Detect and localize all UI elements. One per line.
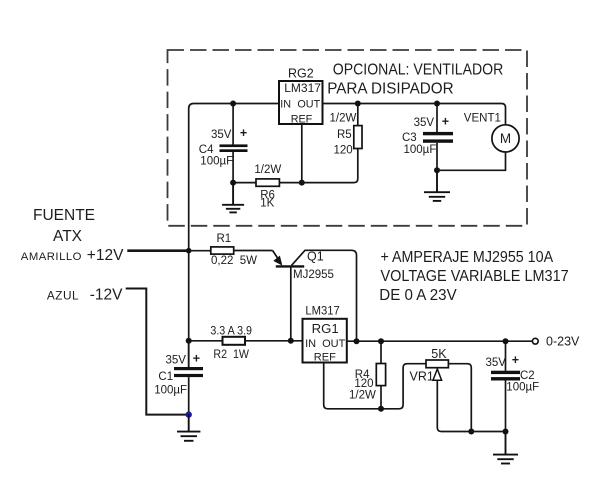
resistor R1 0,22 5W [189, 233, 273, 267]
junction C3 top [434, 101, 440, 107]
svg-text:REF: REF [291, 114, 313, 126]
svg-text:+: + [512, 353, 519, 367]
svg-text:0-23V: 0-23V [546, 334, 580, 348]
svg-text:R5: R5 [337, 129, 352, 141]
wire motor return to C3 [437, 152, 506, 170]
ground below C3 [424, 170, 450, 201]
wire R5 to REF node [302, 149, 358, 183]
svg-text:LM317: LM317 [284, 81, 321, 95]
junction R4 bottom / REF [378, 406, 384, 412]
svg-text:Q1: Q1 [307, 250, 324, 264]
wire left rail (+12V rail from RG2 IN down to C1) [189, 104, 279, 368]
svg-text:1/2W: 1/2W [349, 390, 376, 402]
svg-text:+: + [193, 352, 200, 366]
wire output rail [347, 340, 533, 342]
svg-text:RG1: RG1 [312, 321, 339, 336]
node C1 bottom / -12V blue junction [186, 411, 192, 417]
svg-text:35V: 35V [166, 355, 187, 367]
svg-text:ATX: ATX [53, 228, 83, 245]
terminal 0-23V [532, 338, 538, 344]
junction node +12V [186, 248, 192, 254]
svg-text:C1: C1 [158, 371, 173, 383]
svg-text:IN: IN [280, 98, 291, 110]
svg-text:VOLTAGE VARIABLE LM317: VOLTAGE VARIABLE LM317 [381, 268, 569, 285]
wire RG1 REF loop to R4 bottom and VR1 left [324, 363, 426, 409]
svg-text:VR1: VR1 [410, 369, 434, 383]
svg-text:MJ2955: MJ2955 [293, 269, 334, 281]
junction VR1 bottom [468, 429, 474, 435]
resistor R6 1K [236, 164, 302, 209]
junction C3 bottom [434, 167, 440, 173]
junction REF / R6 right / R5 return [299, 180, 305, 186]
capacitor C3 [402, 104, 453, 171]
svg-text:C2: C2 [520, 370, 535, 382]
regulator RG1 (LM317) box [303, 304, 347, 364]
svg-text:FUENTE: FUENTE [33, 207, 95, 224]
capacitor C2 [486, 341, 540, 431]
svg-text:120: 120 [334, 145, 353, 157]
svg-text:C3: C3 [402, 132, 417, 144]
resistor R5 120 [330, 104, 363, 157]
motor VENT1 [464, 113, 519, 153]
wire RG2 OUT rail (to fan) [323, 104, 506, 125]
regulator RG2 (LM317) box [279, 67, 323, 126]
svg-text:DE 0 A 23V: DE 0 A 23V [379, 287, 457, 304]
svg-text:+ AMPERAJE MJ2955 10A: + AMPERAJE MJ2955 10A [381, 249, 554, 266]
svg-text:LM317: LM317 [305, 304, 340, 318]
wire VR1 wiper lead [437, 380, 471, 431]
svg-text:5K: 5K [431, 347, 447, 361]
ground below C4 [222, 183, 244, 213]
svg-text:IN: IN [305, 338, 316, 350]
wire bottom net to C2 [471, 431, 505, 433]
svg-text:0,22 5W: 0,22 5W [211, 255, 257, 267]
wire Q1 base lead [290, 266, 292, 340]
svg-text:3.3 A 3.9: 3.3 A 3.9 [210, 326, 252, 338]
svg-text:100µF: 100µF [200, 156, 233, 168]
junction C1 top / R2 left [186, 338, 192, 344]
svg-text:+: + [442, 114, 449, 128]
optional section dashed border [168, 50, 528, 226]
wire -12V return (stub, down, right to blue node) [126, 289, 189, 415]
svg-text:35V: 35V [211, 129, 232, 141]
svg-text:-12V: -12V [90, 286, 123, 303]
svg-text:100µF: 100µF [506, 382, 539, 394]
svg-text:C4: C4 [199, 144, 214, 156]
resistor R2 3.3-3.9 1W [189, 326, 303, 361]
junction C4 top [230, 101, 236, 107]
ground below C1 [177, 415, 200, 441]
svg-text:OUT: OUT [297, 98, 320, 110]
junction C4 bottom / R6 left [230, 180, 236, 186]
capacitor C1 [154, 341, 203, 415]
svg-text:1/2W: 1/2W [254, 164, 281, 176]
svg-text:OUT: OUT [322, 338, 346, 350]
svg-text:R1: R1 [217, 233, 232, 245]
svg-text:1/2W: 1/2W [330, 113, 357, 125]
capacitor C4 [199, 104, 248, 183]
wire RG2 REF lead [301, 124, 303, 183]
wire +12V input stub [127, 249, 188, 252]
svg-text:VENT1: VENT1 [464, 113, 501, 125]
svg-text:100µF: 100µF [404, 144, 437, 156]
junction Q1 base / RG1 IN [288, 338, 294, 344]
svg-text:120: 120 [354, 378, 373, 390]
svg-text:R2 1W: R2 1W [213, 349, 249, 361]
resistor R4 120 [349, 341, 386, 409]
ground below C2 [493, 432, 518, 464]
junction R5 top [355, 101, 361, 107]
svg-text:1K: 1K [260, 198, 274, 210]
svg-text:AZUL: AZUL [47, 288, 79, 302]
svg-text:+12V: +12V [87, 247, 124, 264]
svg-text:OPCIONAL: VENTILADOR: OPCIONAL: VENTILADOR [333, 62, 504, 79]
svg-text:PARA DISIPADOR: PARA DISIPADOR [327, 81, 454, 98]
transistor Q1 MJ2955 [273, 250, 357, 342]
junction R4 top [378, 338, 384, 344]
svg-text:35V: 35V [414, 117, 435, 129]
junction Q1 collector / OUT [354, 338, 360, 344]
svg-text:35V: 35V [486, 357, 507, 369]
svg-text:M: M [500, 131, 511, 146]
svg-text:RG2: RG2 [288, 67, 314, 81]
potentiometer VR1 5K [410, 347, 449, 383]
svg-text:100µF: 100µF [154, 384, 187, 396]
junction C2 top [503, 338, 509, 344]
svg-text:REF: REF [314, 351, 336, 363]
junction C2 bottom [503, 429, 509, 435]
svg-text:+: + [240, 126, 247, 140]
svg-text:AMARILLO: AMARILLO [21, 251, 82, 263]
wire VR1 right lead [448, 364, 471, 432]
